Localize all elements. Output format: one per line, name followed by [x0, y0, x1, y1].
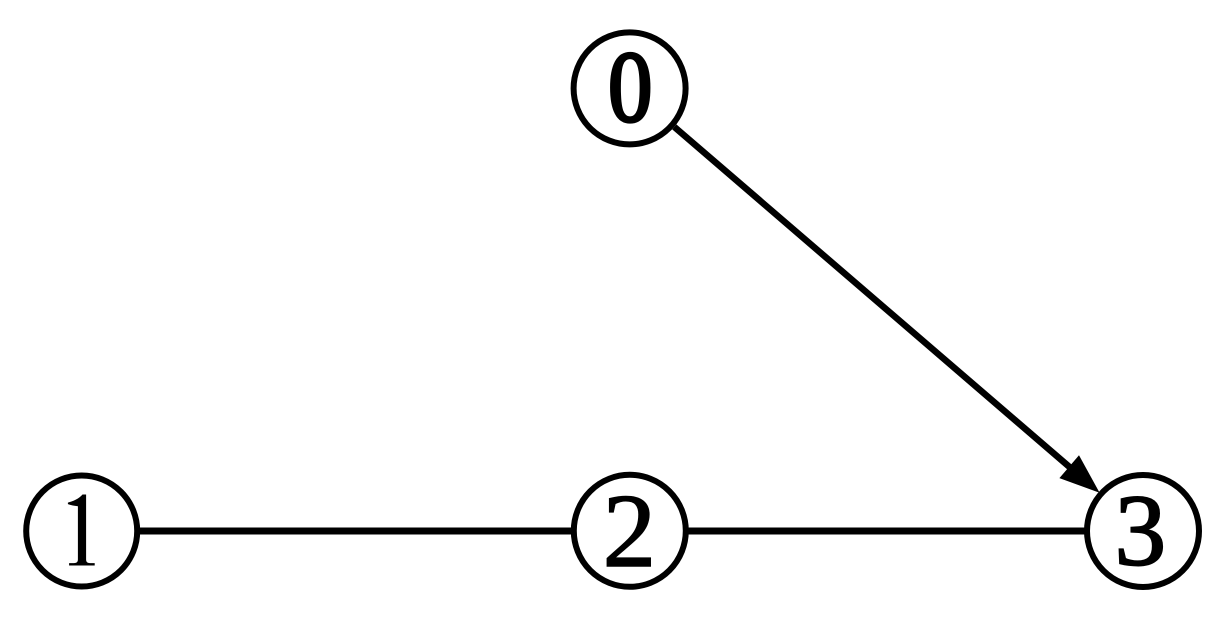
svg-text:2: 2	[603, 473, 656, 589]
svg-text:0: 0	[608, 30, 652, 143]
svg-text:3: 3	[1115, 475, 1167, 587]
